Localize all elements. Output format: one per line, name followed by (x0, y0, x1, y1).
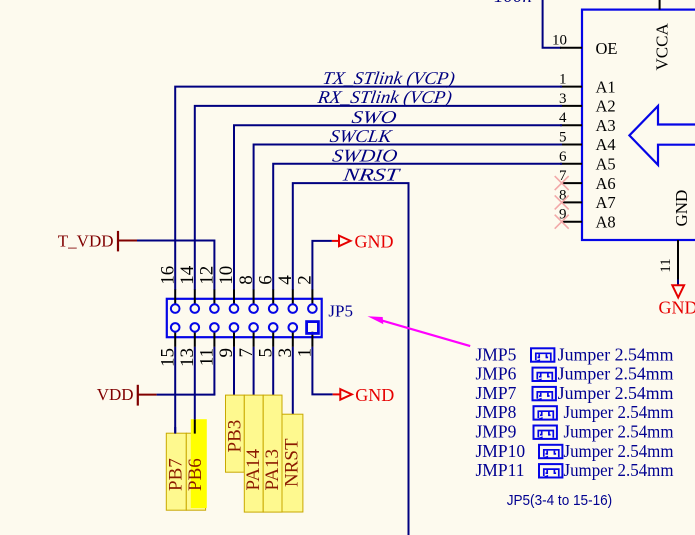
svg-text:GND: GND (659, 298, 695, 318)
power port GND (bottom right of JP5) (333, 385, 395, 405)
BOM row JMP8 with jumper icon (476, 402, 674, 422)
wire JP5 pin15 to PB7 (174, 347, 176, 433)
net label RX_STlink (VCP) (316, 87, 454, 108)
pin 9 A8 (no connect) (555, 207, 616, 232)
wire JP5 pin11 to VDD (213, 347, 215, 395)
port VDD (97, 385, 157, 406)
svg-text:4: 4 (275, 275, 296, 285)
net label PB6 (yellow box) (185, 419, 207, 510)
wire JP5 pin2 to GND (top) (312, 241, 332, 290)
JP5 pin 12 (197, 266, 219, 313)
svg-text:VCCA: VCCA (653, 23, 672, 71)
net label NRST (341, 165, 403, 185)
power port GND (pin 11) (659, 285, 695, 317)
JP5 pin 4 (275, 275, 297, 313)
JP5 pin 10 (216, 266, 238, 313)
net label SWDIO (331, 145, 399, 165)
JP5 pin 2 (295, 275, 317, 313)
wire JP5 pin13 to PB6 (194, 347, 196, 419)
svg-text:Jumper 2.54mm: Jumper 2.54mm (564, 422, 674, 442)
svg-text:JP5(3-4 to 15-16): JP5(3-4 to 15-16) (507, 492, 613, 509)
JP5 designator text (328, 302, 353, 321)
svg-text:GND: GND (355, 385, 394, 405)
BOM row JMP9 with jumper icon (476, 422, 674, 442)
svg-text:PA13: PA13 (262, 449, 283, 491)
svg-text:100n: 100n (494, 0, 532, 7)
svg-text:VDD: VDD (97, 385, 134, 404)
wire end pin13 over PB6 highlight (194, 419, 196, 433)
svg-text:Jumper 2.54mm: Jumper 2.54mm (564, 402, 674, 422)
svg-text:Jumper 2.54mm: Jumper 2.54mm (558, 364, 674, 384)
svg-text:14: 14 (177, 265, 198, 285)
svg-text:JMP11: JMP11 (476, 460, 525, 480)
pin 3 A2 (559, 91, 616, 116)
wire RX_STlink: IC pin3 to JP5 pin14 (195, 106, 562, 290)
direction arrow (big blue, pointing left) (629, 106, 695, 165)
svg-text:6: 6 (559, 149, 567, 165)
wire JP5 pin5 to PA13 (272, 347, 274, 396)
pin VCCA stub (top, clipped) (653, 0, 672, 71)
wire JP5 pin3 to NRST label (292, 347, 294, 415)
svg-text:GND: GND (672, 190, 691, 227)
svg-text:1: 1 (559, 72, 567, 88)
wire T_VDD to JP5 pin12 (137, 241, 214, 291)
pin 11 GND (bottom of IC) (658, 240, 678, 280)
svg-text:JMP10: JMP10 (476, 441, 526, 461)
capacitor C value 100n (clipped at top) (494, 0, 532, 7)
svg-text:A3: A3 (596, 116, 616, 135)
pin GND label inside IC (672, 190, 691, 227)
wire end pin15 over PB7 box (174, 427, 176, 434)
svg-text:SWDIO: SWDIO (331, 145, 399, 165)
JP5 pin 6 (255, 275, 277, 313)
svg-text:10: 10 (552, 32, 567, 48)
annotation arrow (magenta) pointing at JP5 (368, 316, 471, 346)
pin 4 A3 (559, 110, 616, 135)
wire TX_STlink: IC pin1 to JP5 pin16 (175, 87, 562, 290)
BOM row JMP5 with jumper icon (476, 344, 674, 364)
svg-text:NRST: NRST (341, 165, 403, 185)
net label NRST (yellow box) (282, 414, 303, 512)
svg-text:10: 10 (216, 266, 237, 285)
pin 10 OE (552, 32, 618, 58)
wire SWDIO: IC pin6 to JP5 pin6 (273, 164, 562, 290)
port T_VDD (58, 231, 137, 252)
JP5 pin 3 (275, 323, 297, 357)
svg-text:A4: A4 (596, 135, 616, 154)
pin 6 A5 (559, 149, 616, 174)
svg-text:JMP5: JMP5 (476, 344, 517, 364)
svg-text:3: 3 (559, 91, 567, 107)
wire JP5 pin7 to PA14 (253, 347, 255, 396)
wire pin 11 to GND (677, 280, 679, 285)
svg-text:8: 8 (236, 275, 257, 285)
power port GND (top right of JP5) (332, 231, 394, 251)
BOM row JMP6 with jumper icon (476, 364, 674, 384)
JP5 pin 7 (236, 323, 258, 357)
net label PB7 (yellow box) (166, 433, 187, 510)
svg-text:JP5: JP5 (328, 302, 353, 321)
net label TX_STlink (VCP) (321, 68, 456, 89)
svg-text:A8: A8 (596, 212, 616, 231)
svg-text:GND: GND (355, 231, 394, 251)
svg-text:12: 12 (197, 266, 218, 285)
JP5 pin 8 (236, 275, 258, 313)
svg-text:A2: A2 (596, 97, 616, 116)
svg-text:JMP6: JMP6 (476, 364, 517, 384)
BOM row JMP11 with jumper icon (476, 460, 674, 480)
svg-text:11: 11 (658, 258, 674, 272)
JP5 pin 16 (157, 266, 179, 313)
svg-text:OE: OE (596, 39, 618, 58)
svg-text:Jumper 2.54mm: Jumper 2.54mm (558, 383, 674, 403)
net label SWCLK (329, 126, 394, 146)
svg-text:A1: A1 (596, 77, 616, 96)
wire SWCLK: IC pin5 to JP5 pin8 (254, 145, 562, 291)
svg-text:PB6: PB6 (185, 458, 206, 491)
JP5 pin 14 (177, 265, 199, 313)
wire JP5 pin1 to GND (bottom) (312, 347, 332, 395)
svg-text:SWCLK: SWCLK (329, 126, 394, 146)
svg-text:A7: A7 (596, 193, 616, 212)
svg-text:T_VDD: T_VDD (58, 231, 114, 250)
svg-text:Jumper 2.54mm: Jumper 2.54mm (564, 441, 674, 461)
connector JP5 body (167, 299, 322, 337)
svg-text:A6: A6 (596, 174, 616, 193)
svg-text:4: 4 (559, 110, 567, 126)
BOM row JMP7 with jumper icon (476, 383, 674, 403)
pin 5 A4 (559, 130, 616, 155)
svg-text:A5: A5 (596, 155, 616, 174)
svg-text:PB7: PB7 (166, 458, 187, 491)
net label SWO (351, 107, 398, 127)
svg-text:JMP7: JMP7 (476, 383, 517, 403)
JP5 pin 5 (255, 323, 277, 357)
svg-text:5: 5 (559, 130, 567, 146)
wire 100n to pin 10 (543, 0, 561, 48)
wire NRST: JP5 pin4 across and down off-sheet (293, 183, 409, 535)
net label PA14 (yellow box) (243, 395, 264, 512)
svg-text:JMP9: JMP9 (476, 422, 517, 442)
JP5 pin 15 (157, 323, 179, 367)
note JP5(3-4 to 15-16) (507, 492, 613, 509)
IC U1 body (level shifter, right edge off-canvas) (582, 10, 695, 240)
svg-text:NRST: NRST (282, 438, 303, 487)
svg-text:Jumper 2.54mm: Jumper 2.54mm (564, 460, 674, 480)
JP5 pin 13 (177, 323, 199, 367)
pin 7 A6 (no connect) (555, 168, 616, 193)
pin 1 A1 (559, 72, 616, 97)
net label PA13 (yellow box) (262, 395, 283, 512)
wire SWO: IC pin4 to JP5 pin10 (234, 125, 562, 290)
pin 8 A7 (no connect) (555, 187, 616, 212)
JP5 pin 1 (square pad) (295, 322, 319, 358)
svg-text:PB3: PB3 (224, 420, 245, 453)
JP5 pin 9 (216, 323, 238, 357)
BOM row JMP10 with jumper icon (476, 441, 674, 461)
svg-text:2: 2 (295, 275, 316, 285)
net label PB3 (yellow box) (224, 395, 245, 472)
wire VDD to JP5 pin11 (157, 394, 216, 396)
wire JP5 pin9 to PB3 (233, 347, 235, 396)
svg-text:Jumper 2.54mm: Jumper 2.54mm (558, 344, 674, 364)
svg-text:6: 6 (255, 275, 276, 285)
JP5 pin 11 (197, 323, 219, 366)
svg-text:JMP8: JMP8 (476, 402, 517, 422)
svg-text:16: 16 (157, 266, 178, 285)
svg-text:SWO: SWO (351, 107, 398, 127)
